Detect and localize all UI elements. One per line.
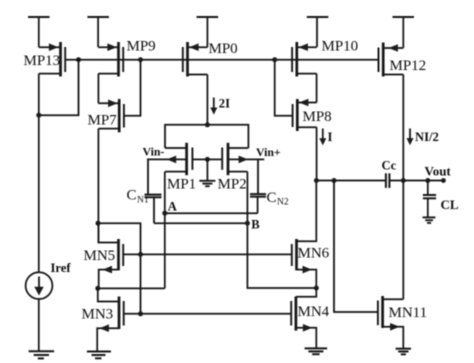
- transistor MN5: [98, 223, 123, 288]
- wire MP12 drain column: [402, 75, 404, 300]
- transistor MP10: [292, 42, 317, 77]
- wire MP8 drain column: [316, 127, 318, 180]
- svg-text:C: C: [127, 188, 137, 204]
- transistor MP0: [183, 42, 208, 77]
- VDD stub 1: [28, 17, 50, 47]
- wire B rail: [154, 222, 247, 224]
- svg-text:N2: N2: [277, 197, 289, 207]
- node MN5 source dot: [95, 286, 100, 291]
- wire node B column: [247, 172, 316, 288]
- svg-text:Cc: Cc: [382, 159, 397, 173]
- wire MP13 diode loop: [39, 60, 79, 115]
- node rail-MP7 gate dot: [138, 57, 143, 62]
- label CN1: [127, 188, 149, 206]
- capacitor CL: [423, 181, 436, 218]
- node output rail left dot: [314, 178, 319, 183]
- VDD stub 4: [307, 17, 329, 47]
- wire A to MN3 drain: [98, 287, 165, 289]
- svg-text:NI/2: NI/2: [415, 130, 439, 144]
- capacitor CN2: [250, 159, 266, 213]
- wire MP13 drain column: [38, 74, 40, 273]
- svg-text:Vin+: Vin+: [256, 145, 281, 159]
- wire MN5-MN6 gate rail: [123, 253, 292, 255]
- svg-text:Vout: Vout: [425, 164, 452, 179]
- wire gate bias rail: [65, 59, 378, 61]
- svg-text:B: B: [251, 218, 260, 232]
- svg-text:MN6: MN6: [298, 246, 330, 262]
- node MN5 gate dot: [138, 252, 143, 257]
- svg-text:MN4: MN4: [298, 304, 330, 320]
- wire MP7 gate link: [124, 60, 141, 116]
- svg-text:MP0: MP0: [209, 41, 238, 57]
- wire MP10 drain to MP8 source: [316, 74, 318, 103]
- wire MN5 bias link: [98, 223, 141, 314]
- node diode loop dot: [36, 113, 41, 118]
- current source Iref: [26, 272, 53, 351]
- transistor MN4: [291, 288, 316, 348]
- svg-text:Vin-: Vin-: [143, 145, 165, 159]
- wire MN11 gate column: [334, 181, 378, 313]
- svg-text:MN5: MN5: [84, 248, 116, 264]
- transistor MP7: [98, 99, 124, 132]
- VDD stub 5: [393, 17, 415, 48]
- svg-text:MP1: MP1: [167, 177, 196, 193]
- transistor MP1: [147, 143, 207, 175]
- node B dot: [245, 221, 250, 226]
- wire node A column: [164, 172, 166, 289]
- node tail dot: [205, 122, 210, 127]
- transistor MP12: [379, 43, 404, 77]
- annotation arrow I: [319, 129, 326, 146]
- wire MN3-MN4 gate rail: [124, 313, 292, 315]
- svg-text:C: C: [267, 190, 277, 206]
- svg-text:MP12: MP12: [390, 58, 427, 74]
- ground CL: [423, 217, 436, 223]
- annotation arrow 2I: [210, 98, 217, 115]
- ground MN4: [305, 348, 328, 354]
- annotation arrow NI/2: [407, 129, 414, 146]
- node A dot: [162, 211, 167, 216]
- svg-text:MP13: MP13: [24, 53, 61, 69]
- transistor MN3: [97, 288, 124, 351]
- ground MN11: [396, 349, 411, 355]
- transistor MP9: [98, 42, 123, 77]
- svg-text:MN11: MN11: [389, 305, 428, 321]
- transistor MP2: [207, 143, 264, 175]
- transistor MP13: [39, 42, 65, 77]
- label CN2: [267, 190, 289, 207]
- svg-text:A: A: [168, 200, 177, 214]
- transistor MP8: [293, 99, 317, 131]
- svg-text:MP9: MP9: [127, 39, 156, 55]
- node bias link dot: [96, 221, 101, 226]
- ground diff pair gates: [199, 159, 215, 186]
- node MN6 source dot: [314, 286, 319, 291]
- wire MP0 drain to tail: [206, 75, 208, 125]
- node rail-MP8 gate dot: [272, 57, 277, 62]
- wire MP9 drain to MP7 source: [97, 74, 99, 104]
- svg-text:MP10: MP10: [322, 39, 359, 55]
- svg-text:CL: CL: [441, 197, 459, 212]
- transistor MN6: [292, 181, 317, 289]
- VDD stub 3: [197, 17, 219, 47]
- node diff gate dot: [205, 157, 210, 162]
- node CL tap dot: [425, 178, 430, 183]
- svg-text:MP2: MP2: [218, 177, 247, 193]
- svg-text:Iref: Iref: [51, 261, 72, 275]
- wire MP7 drain column: [97, 129, 99, 243]
- capacitor CN1: [145, 159, 162, 223]
- svg-text:MN3: MN3: [82, 307, 114, 323]
- svg-text:I: I: [328, 130, 333, 144]
- node Vout column dot: [401, 178, 406, 183]
- transistor MN11: [378, 296, 403, 349]
- wire output rail: [316, 180, 443, 182]
- ground MN3: [87, 352, 111, 359]
- svg-text:MP7: MP7: [88, 113, 118, 129]
- node MN3 gate dot: [138, 311, 143, 316]
- wire node A to CN2: [165, 212, 258, 214]
- node MP13 gate-drain dot: [76, 57, 81, 62]
- VDD stub 2: [87, 17, 109, 47]
- node MN11 gate tap dot: [332, 178, 337, 183]
- svg-text:2I: 2I: [219, 97, 230, 111]
- wire tail rail: [165, 125, 248, 148]
- svg-text:N1: N1: [137, 195, 149, 205]
- wire MP8 gate link: [275, 60, 293, 116]
- capacitor Cc: [386, 173, 390, 188]
- node Vout terminal dot: [441, 178, 446, 183]
- svg-text:MP8: MP8: [303, 109, 332, 125]
- ground Iref: [29, 351, 54, 358]
